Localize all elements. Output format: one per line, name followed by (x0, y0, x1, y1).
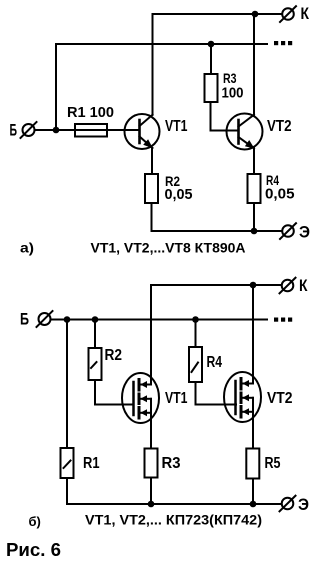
wire: base bus line (a) (56, 43, 267, 45)
node: junction R4 top on gate bus (б) (192, 316, 199, 323)
svg-text:Б: Б (20, 310, 29, 329)
label 100 (R3) (222, 85, 244, 102)
terminal Б (б) (37, 311, 53, 327)
wire: R2 to VT1 gate (б) (95, 380, 134, 405)
wire: VT2 source down to R5 (б) (252, 412, 254, 449)
wire: gate bus to R4 (б) (195, 320, 197, 348)
svg-text:0,05: 0,05 (265, 186, 295, 203)
label R2 (б) (105, 347, 123, 364)
wire: R1 to bottom line (б) (66, 478, 68, 504)
svg-text:К: К (301, 4, 310, 23)
svg-text:R4: R4 (207, 354, 223, 371)
svg-text:VT1: VT1 (165, 118, 188, 135)
label Э (б) (298, 495, 309, 514)
svg-text:VT2: VT2 (267, 390, 293, 407)
transistor VT2 (a) (227, 114, 263, 150)
label 0,05 (R4) (265, 186, 295, 203)
label R4 (б) (207, 354, 223, 371)
label VT1 (б) (165, 390, 188, 407)
label R2 (165, 173, 180, 189)
label а) (20, 240, 34, 256)
svg-text:R5: R5 (265, 455, 281, 472)
svg-text:R3: R3 (162, 455, 181, 472)
label Б (б) (20, 310, 29, 329)
wire: R3 to bottom line (б) (150, 478, 152, 505)
wire: Б terminal to VT1 base through R1 (a) (35, 129, 140, 131)
terminal К (б) (280, 278, 296, 294)
wire: drain bus top line (б) (151, 284, 281, 286)
node: junction R1 top on gate bus (б) (64, 316, 71, 323)
resistor R4 (a) (248, 174, 261, 203)
label Э (a) (299, 223, 310, 242)
label 0,05 (R2) (165, 186, 193, 203)
svg-text:VT1, VT2,... КП723(КП742): VT1, VT2,... КП723(КП742) (85, 512, 262, 528)
resistor R2 (б) (89, 348, 102, 380)
wire: gate bus line (б) (51, 319, 268, 321)
wire: VT2 collector up to top line (a) (253, 14, 255, 115)
label R1 100 (67, 104, 114, 121)
terminal Б (a) (21, 122, 37, 138)
transistor VT1 (б) MOSFET (122, 373, 159, 423)
wire: VT1 emitter down to R2 (a) (151, 148, 153, 174)
svg-text:VT1, VT2,...VT8 КТ890А: VT1, VT2,...VT8 КТ890А (91, 240, 246, 256)
wire: R5 to bottom line (б) (252, 479, 254, 505)
node: junction VT2 drain on top line (б) (250, 282, 257, 289)
svg-text:100: 100 (222, 85, 244, 102)
wire: VT1 drain up to top line (б) (150, 285, 152, 385)
label VT2 (б) (267, 390, 293, 407)
node: junction R2 top on gate bus (б) (92, 316, 99, 323)
node: junction R4 bottom on emitter line (a) (251, 228, 258, 235)
label R1 (б) (83, 455, 100, 472)
wire: R4 to VT2 gate (б) (196, 382, 237, 405)
wire: source bottom line (б) (67, 503, 281, 505)
svg-text:VT1: VT1 (165, 390, 188, 407)
svg-text:Рис. 6: Рис. 6 (6, 540, 61, 560)
node: junction Б wire / left vertical (a) (53, 127, 60, 134)
svg-text:R2: R2 (105, 347, 123, 364)
label R4 (266, 172, 279, 188)
terminal К (a) (280, 6, 296, 22)
svg-text:а): а) (20, 240, 34, 256)
svg-text:R1: R1 (83, 455, 100, 472)
label VT1 (a) (165, 118, 188, 135)
svg-text:VT2: VT2 (267, 118, 292, 135)
wire: VT2 emitter down to R4 (a) (253, 148, 255, 174)
wire: R4 to bottom line (a) (253, 203, 255, 231)
resistor R1 (б) (61, 448, 74, 478)
wire: emitter bottom line (a) (152, 230, 282, 232)
wire: gate bus to R1 (б) (66, 320, 68, 449)
continuation dots (б) (274, 318, 292, 322)
resistor R4 (б) (189, 347, 202, 382)
node: junction R5 bottom (б) (250, 501, 257, 508)
svg-text:R1 100: R1 100 (67, 104, 114, 121)
label К (a) (301, 4, 310, 23)
svg-text:б): б) (29, 514, 41, 529)
figure caption Рис. 6 (6, 540, 61, 560)
label R3 (223, 70, 237, 86)
resistor R5 (б) (246, 449, 259, 479)
node: junction R3 bottom (б) (148, 501, 155, 508)
label К (б) (299, 276, 308, 295)
resistor R3 (б) (145, 449, 158, 478)
label R5 (б) (265, 455, 281, 472)
wire: collector bus top line (a) (153, 13, 283, 15)
caption circuit б (85, 512, 262, 528)
label Б (a) (10, 121, 18, 140)
label б) (29, 514, 41, 529)
wire: gate bus to R2 (б) (94, 320, 96, 349)
wire: left vertical from base bus to Б node (a) (55, 44, 57, 130)
wire: VT2 drain up to top line (б) (252, 285, 254, 384)
wire: VT1 source down to R3 (б) (150, 413, 152, 449)
resistor R1 (a) (75, 124, 107, 137)
terminal Э (б) (280, 496, 296, 512)
node: junction VT2 collector on top line (a) (252, 11, 259, 18)
svg-text:0,05: 0,05 (165, 186, 193, 203)
caption circuit a (91, 240, 246, 256)
transistor VT1 (a) (125, 114, 160, 149)
continuation dots (a) (274, 41, 292, 45)
transistor VT2 (б) MOSFET (224, 372, 261, 422)
svg-text:К: К (299, 276, 308, 295)
label R3 (б) (162, 455, 181, 472)
svg-text:Б: Б (10, 121, 18, 140)
wire: R3 to VT2 base (a) (211, 102, 239, 131)
resistor R3 (a) (205, 74, 218, 102)
svg-text:Э: Э (299, 223, 310, 242)
resistor R2 (a) (145, 174, 158, 203)
label VT2 (a) (267, 118, 292, 135)
node: junction R3 top on base bus (a) (208, 41, 215, 48)
wire: VT1 collector up to top line (a) (152, 14, 154, 115)
terminal Э (a) (280, 223, 296, 239)
wire: R2 to bottom line (a) (151, 203, 153, 231)
svg-text:Э: Э (298, 495, 309, 514)
wire: base bus to R3 (a) (210, 44, 212, 74)
